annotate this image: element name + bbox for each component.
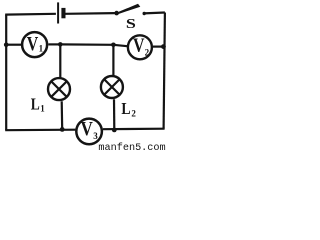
wire bottom left (V3 to corner) (5, 129, 75, 132)
watermark (98, 142, 165, 154)
wire L2 branch upper (112, 45, 114, 76)
lamp L1 (48, 78, 70, 100)
wire bottom right (corner to V3) (103, 128, 165, 131)
svg-text:L: L (121, 99, 130, 118)
node right wire / middle branch (161, 44, 166, 49)
node bottom of L2 branch (112, 127, 117, 132)
battery (58, 2, 65, 23)
svg-text:manfen5.com: manfen5.com (98, 142, 165, 151)
wire L2 branch lower (113, 99, 116, 130)
voltmeter V2 (128, 35, 152, 59)
wire top right (switch to corner) (144, 11, 165, 14)
wire V2 to right wire (153, 45, 163, 47)
svg-text:V: V (27, 34, 39, 55)
node left wire / middle branch (4, 42, 9, 47)
wire right vertical (164, 13, 165, 129)
label L1 (31, 94, 46, 113)
wire L1 branch lower (61, 101, 64, 129)
svg-text:S: S (126, 17, 136, 32)
node bottom of L1 branch (60, 127, 65, 132)
svg-text:1: 1 (40, 104, 45, 114)
svg-text:V: V (133, 35, 145, 56)
svg-text:3: 3 (93, 131, 98, 141)
switch S (114, 4, 146, 32)
svg-text:2: 2 (131, 108, 136, 118)
wire top middle (battery to switch) (66, 12, 115, 15)
wire left vertical (5, 15, 7, 131)
svg-text:2: 2 (145, 47, 150, 57)
voltmeter V3 (76, 119, 102, 145)
svg-text:L: L (31, 94, 40, 113)
wire V1 to node A (48, 43, 60, 45)
wire L1 branch upper (59, 44, 61, 78)
lamp L2 (101, 76, 123, 98)
svg-text:1: 1 (39, 43, 44, 53)
wire middle left stub (6, 44, 21, 46)
node A (top of L1 branch) (58, 42, 63, 47)
wire node B to V2 (113, 45, 127, 46)
wire top left (corner to battery) (5, 13, 56, 16)
wire node A to node B (60, 43, 113, 46)
svg-text:V: V (81, 119, 93, 140)
label L2 (121, 99, 136, 119)
node B (top of L2 branch) (111, 43, 116, 48)
voltmeter V1 (22, 32, 47, 57)
